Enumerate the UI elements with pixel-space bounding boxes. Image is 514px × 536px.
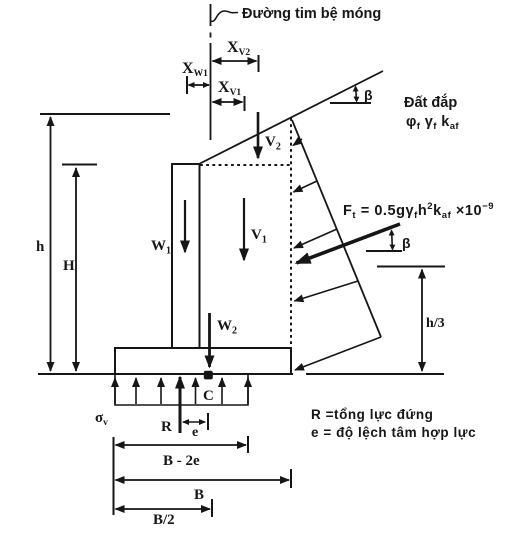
dim B (116, 469, 292, 488)
svg-text:V1: V1 (251, 227, 267, 246)
bearing arrow 2 (135, 378, 137, 404)
footing (115, 348, 291, 374)
dim h/3 vertical (421, 270, 423, 372)
pressure arrow 1 (293, 139, 302, 146)
svg-text:e = độ lệch tâm hợp lực: e = độ lệch tâm hợp lực (311, 425, 476, 440)
label C (203, 388, 214, 404)
svg-text:XV1: XV1 (218, 79, 241, 98)
bearing pressure envelope (115, 375, 248, 405)
bearing arrow 3 (160, 378, 162, 404)
label XW1 (182, 60, 208, 79)
label e (192, 425, 198, 440)
label W2 (217, 318, 237, 337)
arrow V2 (257, 112, 260, 158)
dim B-2e (116, 436, 249, 453)
pressure arrow 2 (294, 181, 318, 192)
bearing arrow 5 (221, 378, 223, 404)
label soil properties (406, 114, 459, 132)
left dimension tick (shared) (113, 437, 115, 515)
label B (194, 487, 204, 503)
Ft angle beta: arrow (391, 231, 394, 249)
dim XV2 (213, 55, 259, 72)
label Duong tim be mong (242, 6, 381, 22)
earth pressure envelope line (292, 120, 381, 337)
resultant R arrow (bold) (179, 377, 182, 433)
svg-text:R =tổng lực đứng: R =tổng lực đứng (311, 407, 433, 422)
label H (63, 258, 75, 274)
svg-text:W2: W2 (217, 318, 237, 337)
dotted vertical back plane (290, 118, 292, 350)
h/3 top reference line (377, 266, 445, 268)
slope angle beta: horizontal reference (330, 102, 371, 104)
dim B/2 (116, 499, 213, 517)
Ft angle beta: horizontal reference (366, 250, 402, 252)
svg-text:B/2: B/2 (153, 512, 175, 528)
label h/3 (426, 316, 445, 331)
slope angle beta: arrow (355, 87, 358, 101)
svg-text:H: H (63, 258, 75, 274)
svg-text:φf γf kaf: φf γf kaf (406, 114, 459, 132)
dim e (183, 413, 208, 430)
svg-text:h: h (36, 239, 45, 255)
svg-text:Ft = 0.5gγfh2kaf ×10−9: Ft = 0.5gγfh2kaf ×10−9 (343, 201, 494, 221)
label W1 (151, 238, 171, 257)
svg-text:XV2: XV2 (227, 39, 250, 58)
wall stem (172, 164, 200, 347)
svg-text:V2: V2 (265, 134, 281, 153)
force Ft arrow (bold) (297, 224, 401, 263)
bearing arrow 1 (114, 378, 116, 404)
point C dot (204, 371, 213, 380)
top reference line for h (40, 113, 170, 115)
svg-text:XW1: XW1 (182, 60, 208, 79)
label beta (lower) (402, 235, 411, 251)
leader to centerline label (211, 11, 238, 21)
label XV2 (227, 39, 250, 58)
pressure arrow at base (295, 337, 381, 370)
label R (161, 419, 172, 435)
svg-text:σv: σv (95, 410, 108, 428)
dim H vertical (75, 168, 77, 371)
svg-text:h/3: h/3 (426, 316, 445, 331)
dotted backfill top line (200, 164, 291, 166)
svg-text:C: C (203, 388, 214, 404)
legend e (311, 425, 476, 440)
label beta (upper) (364, 87, 373, 103)
label Dat dap (404, 93, 457, 111)
bearing arrow 4 (195, 378, 197, 404)
svg-text:Đường tim bệ móng: Đường tim bệ móng (242, 6, 381, 22)
legend R (311, 407, 433, 422)
svg-text:R: R (161, 419, 172, 435)
svg-text:B: B (194, 487, 204, 503)
centerline of footing (dash-dot vertical) (210, 4, 212, 140)
top reference line for H (62, 164, 97, 166)
backfill slope line (199, 71, 383, 164)
label B-2e (163, 453, 200, 469)
svg-text:β: β (364, 87, 373, 103)
arrow V1 (243, 198, 245, 260)
svg-text:e: e (192, 425, 198, 440)
label XV1 (218, 79, 241, 98)
label V2 (265, 134, 281, 153)
svg-text:β: β (402, 235, 411, 251)
svg-text:Đất đắp: Đất đắp (404, 93, 457, 111)
label V1 (251, 227, 267, 246)
pressure arrow 3 (294, 229, 337, 248)
svg-text:W1: W1 (151, 238, 171, 257)
dim h vertical (50, 117, 52, 371)
label sigma_v (95, 410, 108, 428)
label B/2 (153, 512, 175, 528)
dim XW1 (187, 76, 209, 94)
label Ft formula (343, 201, 494, 221)
dim XV1 (213, 96, 245, 111)
label h (36, 239, 45, 255)
bearing arrow 6 (247, 378, 249, 404)
ground/base line (38, 373, 444, 375)
pressure arrow 4 (295, 281, 359, 301)
svg-text:B - 2e: B - 2e (163, 453, 200, 469)
arrow W2 (208, 313, 211, 367)
arrow W1 (184, 200, 186, 252)
